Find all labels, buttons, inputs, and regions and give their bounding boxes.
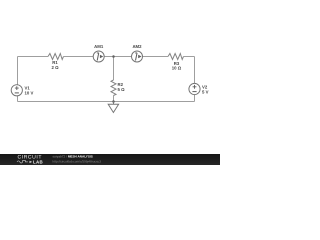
svg-text:AM1: AM1 — [94, 44, 104, 49]
svg-text:5 Ω: 5 Ω — [118, 87, 126, 92]
voltage source V2 — [189, 83, 209, 94]
wire top rail right segment — [184, 56, 195, 58]
CircuitLab logo — [17, 155, 43, 165]
wire left vertical — [17, 57, 19, 102]
wire right vertical — [194, 57, 196, 102]
wire R2 branch — [113, 57, 115, 102]
footer bar — [0, 154, 220, 165]
resistor R2 — [111, 80, 125, 96]
resistor R1 — [48, 54, 64, 70]
resistor R3 — [168, 54, 184, 71]
svg-text:http://circuitlab.com/c/59bj48: http://circuitlab.com/c/59bj48rucxu3 — [53, 159, 102, 163]
svg-text:LAB: LAB — [33, 160, 43, 165]
wire top rail left segment — [18, 56, 49, 58]
svg-text:10 V: 10 V — [25, 91, 34, 96]
node junction top — [112, 55, 115, 58]
wire bottom rail — [18, 101, 195, 103]
ammeter AM2 — [132, 44, 143, 62]
node junction bottom — [112, 100, 115, 103]
svg-text:10 Ω: 10 Ω — [172, 65, 182, 70]
svg-text:AM2: AM2 — [132, 44, 142, 49]
wire top rail middle segment — [64, 56, 169, 58]
svg-text:2 Ω: 2 Ω — [51, 65, 59, 70]
ammeter AM1 — [93, 44, 104, 62]
voltage source V1 — [11, 85, 33, 96]
svg-text:suryab72 / MESH ANALYSIS: suryab72 / MESH ANALYSIS — [53, 155, 93, 159]
svg-text:5 V: 5 V — [202, 89, 209, 94]
ground — [108, 102, 118, 113]
